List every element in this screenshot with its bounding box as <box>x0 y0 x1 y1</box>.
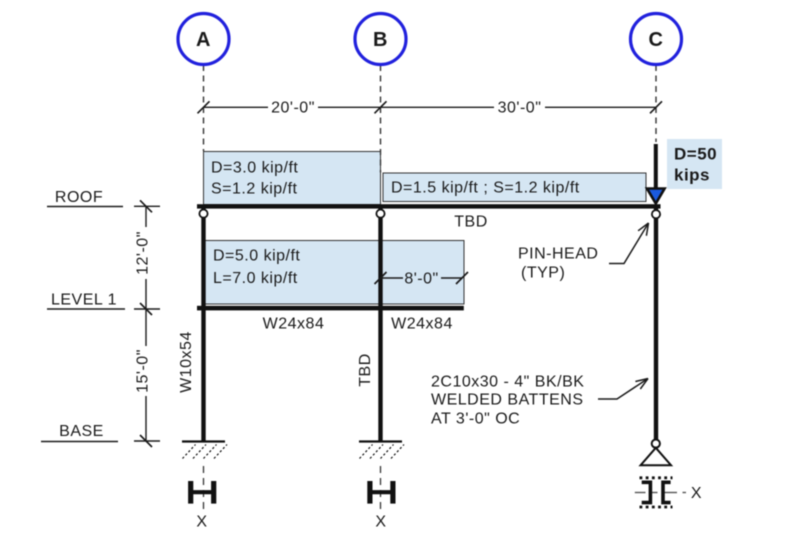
fixed support at B <box>359 442 404 459</box>
svg-text:PIN-HEAD: PIN-HEAD <box>518 245 598 262</box>
level-1 beam W24x84 <box>197 306 464 311</box>
svg-text:15'-0": 15'-0" <box>135 349 152 393</box>
svg-text:8'-0": 8'-0" <box>404 271 438 288</box>
8'-0" dimension inside level-1 load box <box>375 272 469 284</box>
svg-text:30'-0": 30'-0" <box>498 100 542 117</box>
svg-text:ROOF: ROOF <box>55 189 103 206</box>
svg-text:D=50: D=50 <box>674 145 717 164</box>
svg-text:X: X <box>196 514 207 531</box>
pin-head circle at A <box>199 210 207 218</box>
svg-text:D=3.0 kip/ft: D=3.0 kip/ft <box>211 160 298 177</box>
point load arrowhead <box>647 189 665 204</box>
grid centerline A (dashed) <box>203 65 205 151</box>
svg-text:A: A <box>196 29 211 51</box>
svg-text:12'-0": 12'-0" <box>135 231 152 275</box>
double-channel section symbol at C <box>635 478 686 507</box>
column B (TBD) <box>378 207 382 442</box>
pin support at C: circle <box>652 440 660 448</box>
pin-head circle at B <box>376 210 384 218</box>
svg-text:kips: kips <box>674 166 710 185</box>
grid centerline C (dashed) <box>655 65 657 142</box>
top dimension line 20'-0" / 30'-0" <box>198 101 663 113</box>
column C (2C10x30) <box>654 207 658 440</box>
svg-text:W24x84: W24x84 <box>263 316 325 333</box>
battens leader <box>598 379 648 400</box>
svg-text:AT 3'-0" OC: AT 3'-0" OC <box>431 411 520 428</box>
grid bubble C <box>631 14 682 65</box>
section centerline below B <box>380 466 382 511</box>
svg-text:L=7.0 kip/ft: L=7.0 kip/ft <box>213 270 298 287</box>
roof load box A-B (D=3.0) <box>204 152 381 205</box>
grid bubble A <box>178 14 229 65</box>
svg-text:B: B <box>373 29 388 51</box>
PIN-HEAD leader <box>609 223 649 264</box>
point load arrow shaft <box>654 144 658 189</box>
pin-head circle at C <box>652 210 660 218</box>
roof load box B-C (D=1.5) <box>383 173 646 202</box>
section centerline below A <box>203 466 205 511</box>
svg-text:TBD: TBD <box>357 353 374 387</box>
column A (W10x54) <box>201 207 205 442</box>
level-1 load box (D=5.0) <box>205 241 464 305</box>
svg-text:C: C <box>649 29 664 51</box>
svg-text:BASE: BASE <box>59 423 104 440</box>
svg-text:LEVEL 1: LEVEL 1 <box>51 292 117 309</box>
I-section symbol at A <box>189 481 217 504</box>
svg-text:W10x54: W10x54 <box>178 331 195 393</box>
svg-text:D=5.0 kip/ft: D=5.0 kip/ft <box>213 248 300 265</box>
pin support at C: triangle <box>641 448 671 465</box>
vertical dimension line <box>134 200 160 447</box>
svg-text:WELDED BATTENS: WELDED BATTENS <box>431 392 584 409</box>
fixed support at A <box>182 442 227 459</box>
svg-text:W24x84: W24x84 <box>391 316 453 333</box>
grid centerline B (dashed) <box>380 65 382 173</box>
I-section symbol at B <box>368 481 396 504</box>
svg-text:20'-0": 20'-0" <box>271 100 315 117</box>
svg-text:X: X <box>691 485 702 502</box>
point load label D=50 kips <box>667 139 722 189</box>
svg-text:2C10x30 - 4" BK/BK: 2C10x30 - 4" BK/BK <box>431 374 584 391</box>
svg-text:X: X <box>375 514 386 531</box>
grid bubble B <box>355 14 406 65</box>
svg-text:S=1.2 kip/ft: S=1.2 kip/ft <box>211 181 298 198</box>
roof beam <box>197 204 661 208</box>
svg-text:(TYP): (TYP) <box>521 265 565 282</box>
svg-text:TBD: TBD <box>454 214 488 231</box>
svg-text:D=1.5 kip/ft ; S=1.2 kip/ft: D=1.5 kip/ft ; S=1.2 kip/ft <box>391 179 580 196</box>
